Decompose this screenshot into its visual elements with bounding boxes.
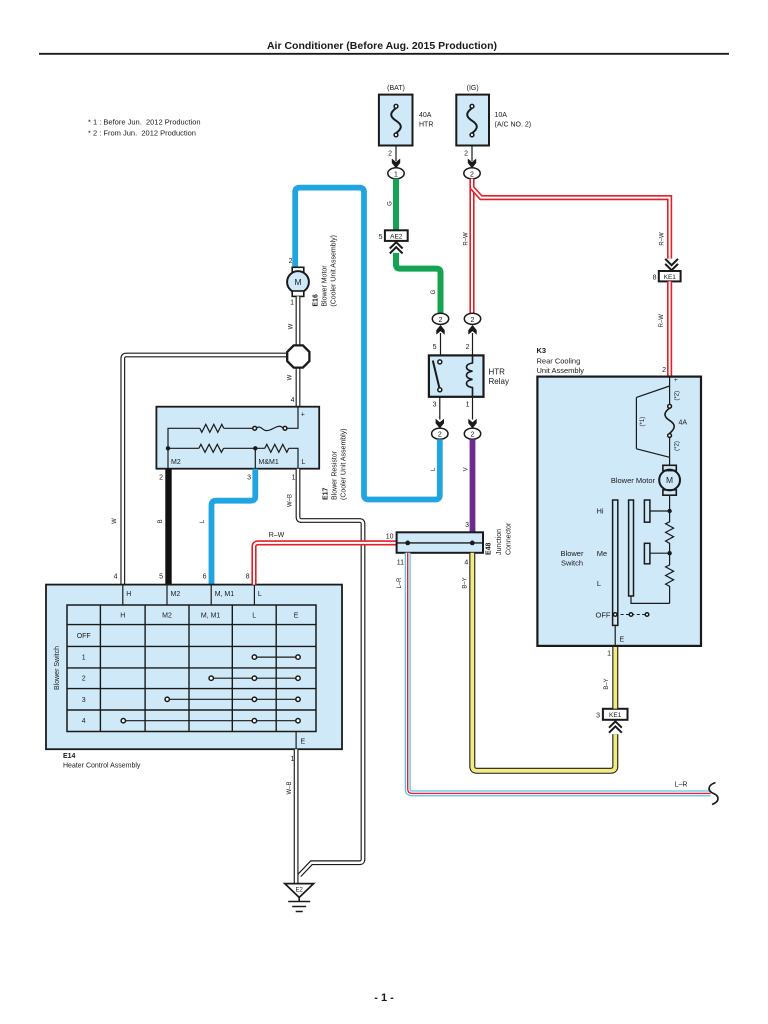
svg-text:M2: M2	[162, 613, 172, 620]
K3 breaker bypass diagonal bottom	[636, 449, 669, 458]
svg-text:5: 5	[433, 344, 437, 351]
svg-text:L: L	[258, 591, 262, 598]
svg-text:HTR: HTR	[489, 368, 506, 377]
svg-text:W: W	[288, 323, 294, 329]
svg-text:M: M	[666, 475, 673, 485]
svg-text:- 1 -: - 1 -	[374, 992, 394, 1004]
motor E16 bottom brush	[292, 291, 304, 296]
terminal 2 (red, above relay)	[464, 313, 480, 324]
svg-text:KE1: KE1	[609, 712, 622, 719]
E14 internal pin stub M,M1	[210, 585, 212, 605]
junction node M&M1	[253, 446, 257, 450]
K3 OFF contact circles and dashed line	[613, 613, 648, 617]
svg-text:2: 2	[159, 475, 163, 482]
blower resistor E17 box	[156, 407, 319, 469]
svg-text:L–R: L–R	[397, 577, 403, 589]
svg-text:M&M1: M&M1	[259, 459, 279, 466]
wire B black: E17 pin2 to E14 pin 5	[165, 469, 171, 585]
E17 lower row middle line	[224, 447, 265, 449]
K3 switch bar1	[613, 500, 618, 625]
K3 Me tap line	[650, 552, 670, 554]
svg-text:(A/C NO. 2): (A/C NO. 2)	[495, 122, 532, 129]
relay contact bottom	[438, 388, 442, 392]
wire node M&M1 to pin 3	[254, 448, 256, 468]
svg-text:2: 2	[464, 151, 468, 158]
E14 internal pin stub H	[122, 585, 124, 605]
switch row 1 contact line L-E	[252, 655, 300, 659]
K3 breaker bypass vertical (*1)	[635, 397, 637, 448]
K3 blower motor body M	[659, 470, 680, 491]
wire G fuse BAT to AE2	[393, 179, 399, 231]
K3 motor bottom brush	[663, 490, 676, 495]
E14 internal E stub	[295, 732, 297, 750]
table row lines	[67, 625, 316, 710]
svg-text:HTR: HTR	[419, 122, 433, 129]
K3 wire to switch bar2	[631, 596, 670, 603]
K3 resistor upper	[666, 511, 674, 553]
svg-text:W: W	[112, 518, 118, 524]
relay contact top	[438, 360, 442, 364]
svg-text:Blower Switch: Blower Switch	[54, 646, 61, 690]
terminal 2 below pin3	[432, 428, 448, 439]
wire W-B: E14 pin E to ground	[294, 749, 299, 883]
svg-text:R–W: R–W	[269, 532, 285, 539]
svg-text:M, M1: M, M1	[201, 613, 221, 620]
svg-text:2: 2	[438, 432, 442, 439]
switch row 4 contact line H-L-E	[121, 719, 300, 723]
svg-text:Relay: Relay	[489, 377, 509, 386]
svg-text:R–W: R–W	[659, 314, 665, 328]
switch row 2 contact line M,M1-L-E	[209, 676, 300, 680]
svg-text:E48: E48	[486, 542, 493, 555]
K3 circuit breaker 4A	[665, 386, 674, 465]
wire R-W IG terminal down	[469, 179, 474, 314]
wire R-W KE1 to K3 pin 2	[667, 281, 672, 376]
svg-text:(Cooler Unit Assembly): (Cooler Unit Assembly)	[331, 235, 338, 307]
svg-text:AE2: AE2	[390, 234, 403, 241]
switch table frame	[67, 605, 316, 732]
svg-text:1: 1	[607, 651, 611, 658]
svg-text:4: 4	[114, 574, 118, 581]
connector arrow down (pin3)	[436, 419, 444, 429]
connector arrow down (pin1)	[468, 419, 476, 429]
wire W-B: E17 pin1 down right side	[298, 469, 363, 876]
svg-text:(*2): (*2)	[674, 391, 680, 401]
svg-text:Heater Control Assembly: Heater Control Assembly	[63, 763, 141, 770]
chevron below AE2	[390, 242, 403, 253]
svg-text:(Cooler Unit Assembly): (Cooler Unit Assembly)	[341, 428, 348, 500]
svg-text:2: 2	[388, 151, 392, 158]
svg-text:KE1: KE1	[664, 274, 677, 281]
svg-text:Blower Resistor: Blower Resistor	[332, 450, 339, 500]
K3 junction node Hi	[667, 509, 671, 513]
wire R-W: E48 to E14 pin 8	[254, 543, 397, 585]
wire L blue: E17 pin3 to E14 pin 6	[212, 469, 256, 585]
fuse 10A A/C NO.2 (IG) box	[456, 95, 489, 146]
svg-text:4: 4	[464, 560, 468, 567]
connector arrow down (BAT)	[392, 159, 400, 169]
terminal 2 (green, above relay)	[432, 313, 448, 324]
svg-text:Me: Me	[597, 549, 607, 558]
relay switch blade	[433, 361, 440, 389]
E14 internal pin stub M2	[166, 585, 168, 605]
svg-text:(*2): (*2)	[674, 441, 680, 451]
svg-text:Unit Assembly: Unit Assembly	[537, 366, 585, 375]
motor E16 body M	[287, 271, 309, 293]
svg-text:3: 3	[465, 522, 469, 529]
svg-text:L: L	[597, 579, 601, 588]
svg-text:10A: 10A	[495, 112, 508, 119]
svg-text:(BAT): (BAT)	[387, 85, 405, 92]
K3 switch bar2	[629, 500, 634, 596]
wire to relay pin 2	[472, 333, 474, 355]
svg-text:+: +	[301, 412, 305, 419]
svg-text:Junction: Junction	[496, 529, 503, 555]
svg-text:H: H	[126, 591, 131, 598]
svg-text:M2: M2	[171, 459, 181, 466]
svg-text:5: 5	[379, 234, 383, 241]
svg-text:1: 1	[466, 402, 470, 409]
svg-text:Hi: Hi	[596, 507, 603, 516]
svg-text:Blower: Blower	[561, 549, 584, 558]
svg-text:(*1): (*1)	[640, 417, 646, 427]
table column lines	[100, 605, 276, 732]
ground hatch	[288, 902, 310, 912]
svg-text:1: 1	[394, 171, 398, 178]
junction node M2	[166, 446, 170, 450]
svg-text:1: 1	[292, 475, 296, 482]
K3 Me tap bar	[644, 543, 650, 564]
E14 internal pin stub L	[253, 585, 255, 605]
svg-text:2: 2	[471, 317, 475, 324]
svg-text:3: 3	[247, 475, 251, 482]
K3 motor top brush	[663, 465, 676, 470]
svg-text:2: 2	[439, 317, 443, 324]
wire W motor to octagon joint	[296, 296, 301, 346]
svg-text:6: 6	[203, 574, 207, 581]
chevron below KE1 (B-Y)	[609, 721, 622, 732]
svg-text:E: E	[620, 637, 625, 644]
K3 resistor lower	[666, 553, 674, 603]
ground stub	[298, 897, 300, 901]
svg-text:+: +	[674, 378, 680, 382]
wire fuse IG to terminal	[471, 146, 473, 162]
switch row 3 contact line M2-L-E	[165, 697, 300, 701]
wire L blue: relay pin3 to E16 loop to blower motor	[295, 188, 440, 500]
wire relay pin3 down	[439, 397, 441, 420]
svg-text:4A: 4A	[679, 420, 688, 427]
svg-text:11: 11	[397, 560, 404, 567]
svg-text:1: 1	[82, 655, 86, 662]
svg-text:K3: K3	[537, 346, 547, 355]
svg-text:3: 3	[82, 697, 86, 704]
chevron above KE1	[665, 259, 678, 270]
svg-text:* 2 : From Jun. 2012 Producti: * 2 : From Jun. 2012 Production	[88, 128, 196, 137]
wire to relay pin 5	[440, 333, 442, 355]
K3 Hi tap line	[650, 510, 670, 512]
wire G AE2 to HTR relay pin 5	[396, 253, 441, 313]
svg-text:H: H	[120, 613, 125, 620]
E17 wire fuse to resistor1	[224, 427, 253, 429]
resistor R-lower-left E17	[199, 444, 224, 452]
E48 junction node left	[405, 541, 410, 546]
svg-text:W–B: W–B	[288, 494, 294, 507]
heater control assembly E14 box	[46, 585, 342, 750]
svg-text:B–Y: B–Y	[604, 678, 610, 689]
svg-text:Connector: Connector	[506, 522, 513, 555]
wire V purple: relay pin1 to E48 pin3	[470, 439, 476, 532]
wire B-Y: K3 pin E to KE1	[612, 646, 618, 709]
octagon joint connector	[287, 345, 309, 367]
connector arrow up below terminal (red branch)	[468, 325, 476, 335]
svg-text:3: 3	[433, 402, 437, 409]
connector arrow up below terminal	[436, 325, 444, 335]
terminal 1 (BAT)	[388, 168, 404, 179]
fuse 40A HTR (BAT) box	[379, 95, 413, 146]
ground E2 triangle	[285, 884, 314, 898]
K3 internal circuit from pin 2	[669, 377, 671, 386]
junction connector E48 box	[397, 532, 483, 553]
svg-text:4: 4	[291, 397, 295, 404]
svg-text:Blower Motor: Blower Motor	[322, 265, 329, 307]
svg-text:Rear Cooling: Rear Cooling	[537, 357, 581, 366]
svg-text:E17: E17	[323, 487, 330, 500]
svg-text:10: 10	[386, 534, 394, 541]
svg-text:M, M1: M, M1	[215, 591, 235, 598]
E48 internal bus line	[397, 542, 483, 544]
svg-text:M2: M2	[171, 591, 181, 598]
svg-text:3: 3	[596, 712, 600, 719]
svg-text:G: G	[431, 289, 437, 294]
E17 wire resistor1 to left corner down	[168, 428, 200, 448]
wire node M2 to pin 2	[167, 448, 169, 468]
svg-text:Switch: Switch	[561, 559, 583, 568]
svg-text:2: 2	[471, 432, 475, 439]
E17 internal wire from pin4	[287, 407, 298, 429]
E17 lower row left line	[168, 447, 199, 449]
svg-text:L: L	[302, 459, 306, 466]
E17 lower row right corner to pin 1	[289, 448, 298, 468]
svg-text:E2: E2	[296, 887, 304, 893]
wire B-Y: E48 pin4 loop to KE1	[472, 553, 615, 771]
header rule	[39, 53, 729, 55]
svg-text:* 1 : Before Jun. 2012 Produc: * 1 : Before Jun. 2012 Production	[88, 117, 201, 126]
svg-text:(IG): (IG)	[467, 85, 479, 92]
K3 junction node Me	[667, 551, 671, 555]
svg-text:Air Conditioner (Before Aug. 2: Air Conditioner (Before Aug. 2015 Produc…	[267, 40, 497, 52]
terminal 2 (IG)	[464, 168, 480, 179]
svg-text:2: 2	[470, 171, 474, 178]
terminal 2 below pin1	[464, 428, 480, 439]
resistor R-upper E17	[200, 424, 224, 432]
svg-text:2: 2	[82, 676, 86, 683]
E48 junction node right	[470, 541, 475, 546]
svg-text:40A: 40A	[419, 112, 432, 119]
rear cooling unit K3 box	[537, 377, 701, 646]
wire break squiggle	[709, 783, 718, 805]
svg-text:G: G	[387, 201, 393, 206]
svg-text:OFF: OFF	[596, 611, 611, 620]
svg-text:E14: E14	[63, 753, 76, 760]
svg-text:2: 2	[662, 367, 666, 374]
svg-text:B–Y: B–Y	[462, 577, 468, 588]
svg-text:2: 2	[289, 258, 293, 265]
wire R-W branch to right	[472, 188, 670, 259]
svg-text:2: 2	[466, 344, 470, 351]
svg-text:L: L	[252, 613, 256, 620]
K3 wire bar1 to pin E	[614, 625, 616, 646]
K3 wire motor to Hi node	[669, 495, 671, 511]
svg-text:1: 1	[290, 300, 294, 307]
wire W octagon left branch to E14 pin 4	[123, 355, 288, 585]
svg-text:Blower Motor: Blower Motor	[611, 476, 656, 485]
svg-text:E: E	[294, 613, 299, 620]
svg-text:L: L	[431, 467, 437, 471]
svg-text:R–W: R–W	[464, 232, 470, 246]
svg-text:L–R: L–R	[675, 782, 688, 789]
K3 breaker bypass diagonal top	[636, 386, 669, 397]
svg-text:V: V	[463, 467, 469, 471]
svg-text:R–W: R–W	[660, 232, 666, 246]
thermal fuse E17	[253, 426, 287, 430]
relay HTR box	[429, 355, 484, 396]
resistor R-lower-right E17	[265, 444, 289, 452]
svg-text:W–B: W–B	[287, 781, 293, 794]
svg-text:4: 4	[82, 718, 86, 725]
svg-text:M: M	[294, 277, 301, 287]
relay coil	[467, 355, 473, 396]
svg-text:W: W	[287, 374, 293, 380]
motor E16 top brush	[292, 267, 304, 272]
wire L-R: E48 pin11 to break	[408, 553, 711, 794]
svg-text:L: L	[200, 519, 206, 523]
wire fuse BAT to terminal	[395, 146, 397, 162]
K3 Hi tap bar	[644, 500, 650, 522]
wire W octagon to E17 pin 4	[296, 367, 301, 407]
svg-text:E16: E16	[313, 294, 320, 307]
svg-text:B: B	[158, 519, 164, 523]
wire relay pin1 down	[472, 397, 474, 420]
svg-text:5: 5	[159, 574, 163, 581]
svg-text:E: E	[301, 739, 306, 746]
svg-text:8: 8	[653, 274, 657, 281]
connector arrow down (IG)	[468, 159, 476, 169]
svg-text:OFF: OFF	[77, 633, 91, 640]
svg-text:8: 8	[246, 574, 250, 581]
